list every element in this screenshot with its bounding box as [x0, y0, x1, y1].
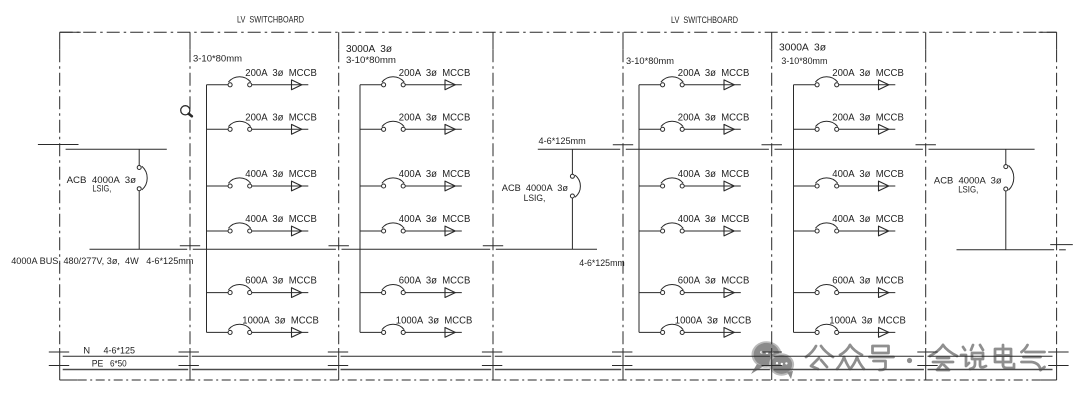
svg-text:1000A 3ø MCCB: 1000A 3ø MCCB — [396, 315, 473, 326]
svg-text:200A 3ø MCCB: 200A 3ø MCCB — [245, 68, 317, 79]
svg-text:4-6*125mm: 4-6*125mm — [539, 136, 587, 146]
svg-text:200A 3ø MCCB: 200A 3ø MCCB — [678, 68, 750, 79]
svg-text:400A 3ø MCCB: 400A 3ø MCCB — [245, 169, 317, 180]
svg-text:3000A 3ø: 3000A 3ø — [346, 44, 392, 55]
svg-text:LV SWITCHBOARD: LV SWITCHBOARD — [237, 14, 304, 25]
svg-text:3000A 3ø: 3000A 3ø — [779, 43, 826, 54]
svg-text:400A 3ø MCCB: 400A 3ø MCCB — [678, 214, 750, 225]
svg-text:200A 3ø MCCB: 200A 3ø MCCB — [399, 68, 471, 79]
svg-text:N: N — [83, 346, 90, 357]
svg-text:400A 3ø MCCB: 400A 3ø MCCB — [678, 169, 750, 180]
svg-text:4-6*125mm: 4-6*125mm — [579, 258, 625, 268]
svg-text:400A 3ø MCCB: 400A 3ø MCCB — [399, 169, 471, 180]
svg-text:LSIG,: LSIG, — [958, 184, 978, 194]
svg-text:400A 3ø MCCB: 400A 3ø MCCB — [245, 214, 317, 225]
svg-text:1000A 3ø MCCB: 1000A 3ø MCCB — [242, 315, 319, 326]
svg-text:600A 3ø MCCB: 600A 3ø MCCB — [245, 276, 317, 287]
svg-text:LSIG,: LSIG, — [524, 193, 546, 203]
svg-text:PE: PE — [92, 358, 104, 368]
svg-text:200A 3ø MCCB: 200A 3ø MCCB — [399, 112, 471, 123]
svg-text:LV SWITCHBOARD: LV SWITCHBOARD — [671, 15, 738, 26]
svg-text:600A 3ø MCCB: 600A 3ø MCCB — [832, 276, 904, 287]
svg-text:600A 3ø MCCB: 600A 3ø MCCB — [399, 276, 471, 287]
svg-text:3-10*80mm: 3-10*80mm — [626, 56, 674, 66]
svg-text:200A 3ø MCCB: 200A 3ø MCCB — [678, 112, 750, 123]
svg-text:4-6*125: 4-6*125 — [104, 346, 136, 357]
svg-text:400A 3ø MCCB: 400A 3ø MCCB — [832, 214, 904, 225]
svg-text:3-10*80mm: 3-10*80mm — [193, 54, 242, 64]
svg-text:200A 3ø MCCB: 200A 3ø MCCB — [832, 68, 904, 79]
svg-text:6*50: 6*50 — [110, 358, 127, 368]
svg-text:200A 3ø MCCB: 200A 3ø MCCB — [245, 112, 317, 123]
svg-text:600A 3ø MCCB: 600A 3ø MCCB — [678, 276, 750, 287]
svg-text:400A 3ø MCCB: 400A 3ø MCCB — [832, 169, 904, 180]
svg-text:3-10*80mm: 3-10*80mm — [346, 55, 396, 65]
svg-text:LSIG,: LSIG, — [92, 184, 111, 194]
svg-text:200A 3ø MCCB: 200A 3ø MCCB — [832, 112, 904, 123]
svg-text:400A 3ø MCCB: 400A 3ø MCCB — [399, 214, 471, 225]
svg-text:1000A 3ø MCCB: 1000A 3ø MCCB — [829, 315, 906, 326]
svg-text:4000A BUS, 480/277V, 3ø, 4W: 4000A BUS, 480/277V, 3ø, 4W 4-6*125mm — [11, 256, 194, 266]
svg-text:1000A 3ø MCCB: 1000A 3ø MCCB — [675, 315, 752, 326]
svg-text:3-10*80mm: 3-10*80mm — [781, 56, 827, 66]
